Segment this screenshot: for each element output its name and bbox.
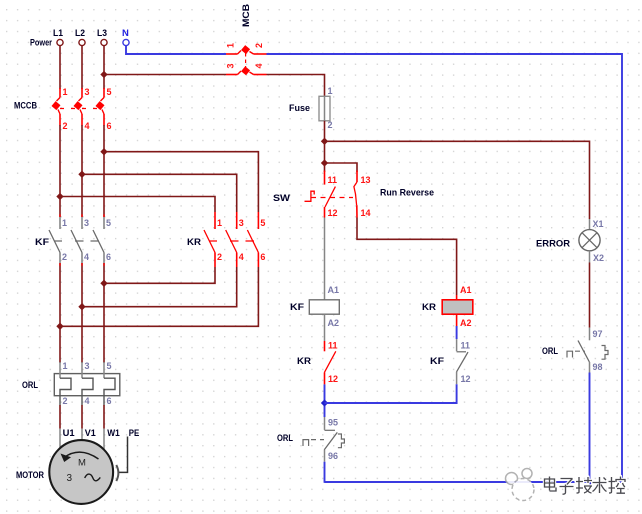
- svg-text:3: 3: [84, 218, 89, 228]
- svg-text:2: 2: [63, 121, 68, 131]
- ORL heater pole 1: [60, 361, 71, 406]
- svg-text:KR: KR: [297, 356, 311, 367]
- wire L3 drop to MCCB: [103, 46, 105, 89]
- svg-text:ORL: ORL: [277, 433, 293, 444]
- svg-text:1: 1: [63, 87, 68, 97]
- svg-text:U1: U1: [63, 428, 76, 439]
- wire KR A2 down: [456, 314, 458, 339]
- svg-text:95: 95: [328, 418, 338, 428]
- svg-text:3: 3: [85, 87, 90, 97]
- svg-text:A2: A2: [460, 318, 472, 328]
- junction bottom rail: [586, 478, 593, 485]
- contactor KF pole 2: [71, 217, 89, 264]
- svg-text:L3: L3: [97, 28, 107, 39]
- wire L1 drop to MCCB: [59, 46, 61, 89]
- svg-text:MOTOR: MOTOR: [16, 470, 44, 481]
- coil KF (A1-A2): [309, 285, 339, 328]
- svg-text:ORL: ORL: [542, 346, 558, 357]
- svg-text:6: 6: [107, 121, 112, 131]
- ORL heater pole 2: [82, 361, 93, 406]
- watermark logo icon: [506, 469, 535, 501]
- svg-text:A1: A1: [328, 285, 340, 295]
- wire ERROR branch across: [325, 141, 590, 219]
- wire L2 MCCB to ORL: [81, 125, 83, 217]
- svg-text:MCCB: MCCB: [14, 101, 37, 112]
- svg-text:4: 4: [254, 63, 264, 68]
- wire ORL to motor W1: [103, 405, 105, 449]
- breaker MCCB linkage: [60, 108, 100, 110]
- svg-text:14: 14: [361, 208, 371, 218]
- svg-text:PE: PE: [129, 428, 140, 439]
- terminal N: [122, 28, 129, 46]
- junction KR6 on L1: [56, 323, 63, 330]
- overload relay ORL body: [54, 374, 120, 396]
- contactor KR pole 3: [247, 212, 265, 267]
- svg-text:3: 3: [226, 63, 236, 68]
- svg-text:12: 12: [328, 208, 338, 218]
- contact KR aux NC 11-12 (open): [324, 341, 338, 385]
- wire end ticks at KF pins: [60, 214, 104, 266]
- junction L2 to KR branch: [78, 171, 85, 178]
- svg-text:6: 6: [260, 252, 265, 262]
- wire ERROR to ORL97: [589, 251, 591, 263]
- contactor KF linkage: [54, 240, 99, 242]
- wire L3 to KR pole 5: [104, 152, 258, 212]
- terminal L2: [75, 28, 85, 46]
- svg-text:5: 5: [107, 87, 112, 97]
- lamp ERROR (X1-X2): [579, 219, 604, 263]
- junction on L3 feeding MCB: [100, 71, 107, 78]
- svg-text:1: 1: [328, 86, 333, 96]
- svg-text:L2: L2: [75, 28, 85, 39]
- wire L2 to KR pole 3: [82, 174, 237, 212]
- breaker MCB pole 1 (pins 1-2): [226, 43, 267, 54]
- junction SW13 branch: [321, 159, 328, 166]
- svg-text:SW: SW: [273, 193, 290, 204]
- svg-text:11: 11: [328, 341, 338, 351]
- wire N to MCB pole 1: [126, 46, 226, 54]
- svg-text:2: 2: [217, 252, 222, 262]
- contactor KR pole 2: [226, 212, 244, 267]
- svg-text:Power: Power: [30, 38, 52, 49]
- ORL 97 latch: [602, 346, 609, 360]
- breaker MCCB pole 2 (pins 3-4): [73, 87, 89, 131]
- svg-text:W1: W1: [107, 428, 120, 439]
- svg-text:13: 13: [361, 175, 371, 185]
- junction L3 to KR branch: [100, 148, 107, 155]
- wire L2 drop to MCCB: [81, 46, 83, 89]
- fuse F1: [319, 86, 333, 130]
- wire L3 MCCB to ORL: [103, 125, 105, 217]
- junction fuse ERROR branch: [321, 138, 328, 145]
- wire ORL96 to bottom rail: [324, 462, 326, 483]
- svg-text:12: 12: [328, 374, 338, 384]
- svg-text:ERROR: ERROR: [536, 239, 570, 250]
- breaker MCB pole 2 (pins 3-4): [226, 63, 267, 75]
- wire MCB pole 2 to Fuse: [267, 75, 325, 97]
- svg-text:M: M: [78, 458, 86, 469]
- svg-text:1: 1: [62, 218, 67, 228]
- contact ORL 95-96: [324, 417, 338, 462]
- svg-text:1: 1: [226, 43, 236, 48]
- svg-text:5: 5: [260, 218, 265, 228]
- svg-text:11: 11: [328, 175, 338, 185]
- contactor KR pole 1: [204, 212, 222, 267]
- svg-text:5: 5: [106, 218, 111, 228]
- svg-text:3: 3: [67, 473, 73, 484]
- junction KR2 on L3: [100, 280, 107, 287]
- contactor KF pole 3: [93, 217, 111, 264]
- contactor KR linkage: [209, 240, 254, 242]
- watermark text (drawn CJK strokes): [545, 477, 626, 495]
- motor terminal labels U1 V1 W1 PE: [63, 428, 140, 439]
- wire KR12 to junction: [324, 384, 326, 417]
- switch SW pole 13-14: [354, 171, 371, 219]
- svg-text:1: 1: [217, 218, 222, 228]
- wire ORL98 to bottom rail: [589, 373, 591, 483]
- wire bottom neutral rail: [325, 481, 623, 483]
- wire KR pole 1 to L3 lower: [104, 267, 215, 283]
- wire SW13 branch: [325, 163, 358, 172]
- svg-text:4: 4: [85, 121, 90, 131]
- svg-text:L1: L1: [53, 28, 64, 39]
- svg-text:2: 2: [62, 252, 67, 262]
- svg-text:2: 2: [328, 120, 333, 130]
- svg-text:1: 1: [63, 361, 68, 371]
- wire PE to motor: [116, 437, 127, 482]
- junction control bus: [321, 399, 328, 406]
- svg-text:3: 3: [85, 361, 90, 371]
- wire L3 junction to MCB pole 2: [104, 74, 226, 76]
- svg-text:Run Reverse: Run Reverse: [380, 188, 434, 199]
- wire KR pole 5 to L1 lower: [60, 267, 258, 326]
- wire L1 MCCB to ORL: [59, 125, 61, 217]
- svg-text:3: 3: [239, 218, 244, 228]
- svg-text:A2: A2: [328, 318, 340, 328]
- svg-text:MCB: MCB: [241, 4, 252, 27]
- svg-text:2: 2: [254, 43, 264, 48]
- svg-text:X2: X2: [593, 253, 604, 263]
- svg-text:X1: X1: [593, 219, 604, 229]
- svg-text:KF: KF: [430, 356, 444, 367]
- svg-text:ORL: ORL: [22, 380, 38, 391]
- svg-text:5: 5: [107, 361, 112, 371]
- svg-text:96: 96: [328, 451, 338, 461]
- breaker MCCB pole 3 (pins 5-6): [95, 87, 111, 131]
- svg-text:12: 12: [461, 374, 471, 384]
- wire L1 to KR pole 1: [60, 197, 215, 213]
- coil KR (A1-A2) energized: [442, 285, 473, 328]
- breaker MCB linkage: [245, 53, 247, 67]
- contact ORL 97-98: [578, 328, 603, 373]
- terminal L3: [97, 28, 107, 46]
- terminal L1: [53, 28, 64, 46]
- svg-text:11: 11: [461, 341, 471, 351]
- svg-text:N: N: [122, 28, 129, 39]
- svg-text:KF: KF: [35, 237, 49, 248]
- junction KR4 on L2: [78, 303, 85, 310]
- svg-text:4: 4: [239, 252, 244, 262]
- wire SW14 to KR coil: [357, 218, 457, 296]
- contact KF aux NC 11-12 (closed): [457, 339, 471, 384]
- svg-text:2: 2: [63, 396, 68, 406]
- svg-text:Fuse: Fuse: [289, 103, 310, 114]
- svg-text:KR: KR: [187, 237, 201, 248]
- svg-text:V1: V1: [85, 428, 97, 439]
- svg-text:6: 6: [106, 252, 111, 262]
- switch SW pole 11-12: [325, 171, 338, 219]
- ORL 95 latch: [338, 434, 345, 448]
- svg-text:4: 4: [85, 396, 90, 406]
- switch SW actuator: [305, 191, 315, 201]
- wire ORL to motor V1: [81, 405, 83, 440]
- svg-text:KR: KR: [422, 302, 436, 313]
- svg-text:KF: KF: [290, 302, 304, 313]
- ORL 97 actuator: [567, 351, 585, 357]
- wire KF A2 down: [324, 314, 326, 341]
- svg-text:4: 4: [84, 252, 89, 262]
- junction L1 to KR branch: [56, 193, 63, 200]
- svg-text:97: 97: [593, 329, 603, 339]
- ORL heater pole 3: [104, 361, 115, 406]
- contactor KF pole 1: [49, 217, 67, 264]
- wire KF12 to junction: [325, 384, 457, 403]
- motor M1 body: [49, 440, 113, 504]
- breaker MCCB pole 1 (pins 1-2): [51, 87, 67, 131]
- svg-text:98: 98: [593, 362, 603, 372]
- wire ORL to motor U1: [59, 405, 61, 448]
- svg-text:6: 6: [107, 396, 112, 406]
- svg-text:A1: A1: [460, 285, 472, 295]
- switch SW linkage: [311, 197, 353, 199]
- wire fuse to SW: [324, 121, 326, 172]
- wire SW12 to KF coil: [324, 218, 326, 301]
- wire MCB pole 1 to right rail: [267, 54, 623, 482]
- ORL 95 actuator: [303, 440, 324, 446]
- wire KR pole 3 to L2 lower: [82, 267, 237, 307]
